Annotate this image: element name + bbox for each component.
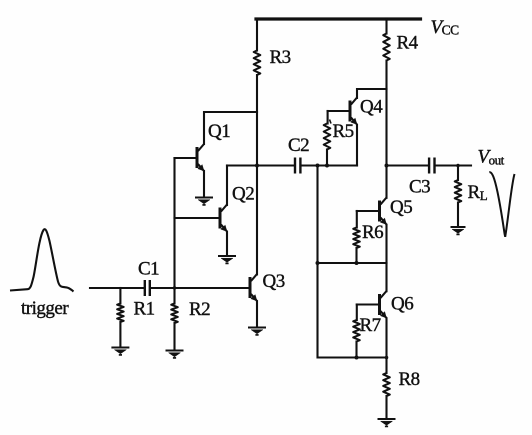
resistor R2 <box>171 304 178 324</box>
resistor R8 <box>383 373 390 396</box>
wire: VCC supply rail <box>256 17 421 20</box>
ground at Q2 emitter <box>218 256 236 263</box>
svg-text:trigger: trigger <box>21 298 69 319</box>
transistor Q1 <box>197 144 204 171</box>
wire: trigger line to C1 <box>90 287 144 289</box>
wire: Q6 base <box>357 303 379 305</box>
svg-text:Q3: Q3 <box>263 271 285 292</box>
svg-text:R8: R8 <box>399 369 420 390</box>
junction: branch wire on node <box>316 164 320 168</box>
junction: mid rung on left branch <box>316 261 320 265</box>
wire: R8 to ground <box>385 396 387 418</box>
wire: Q5 base <box>357 210 379 212</box>
transistor Q5 <box>380 198 387 225</box>
wire: R1 to ground <box>119 322 121 347</box>
resistor RL <box>455 180 462 202</box>
svg-text:R2: R2 <box>189 299 210 320</box>
junction: lower rung at R8 column <box>385 356 389 360</box>
svg-text:Q2: Q2 <box>232 184 254 205</box>
output pulse waveform <box>489 172 514 237</box>
wire: Q6 base down to R7 <box>356 305 358 321</box>
wire: rail to R3 top <box>256 19 258 51</box>
wire: Q1 collector up and right to R3 column <box>204 112 257 144</box>
svg-text:RL: RL <box>468 182 488 203</box>
svg-text:R5: R5 <box>333 121 354 142</box>
junction: R6 bottom <box>355 261 359 265</box>
svg-text:R6: R6 <box>362 222 383 243</box>
ground below R1 <box>111 348 129 355</box>
wire: Q1 base <box>175 157 197 159</box>
resistor R5 <box>324 124 331 150</box>
transistor Q6 <box>380 291 387 318</box>
junction: R5 on node <box>325 164 329 168</box>
wire: rail to R4 <box>385 19 387 34</box>
wire: RL to ground <box>457 203 459 227</box>
wire: R2 to ground <box>173 323 175 350</box>
transistor Q3 <box>250 274 257 301</box>
wire: Q6 emitter down to R8 <box>385 318 387 373</box>
transistor Q4 <box>350 98 357 125</box>
wire: C1 to Q3 base <box>152 287 249 289</box>
wire: Q2 collector node to C2 <box>227 164 294 166</box>
svg-text:Vout: Vout <box>478 146 505 167</box>
wire: Q5 base down to R6 <box>356 211 358 228</box>
svg-text:R3: R3 <box>270 47 291 68</box>
wire: Q2 collector up <box>226 166 228 206</box>
ground below RL <box>451 227 466 234</box>
svg-text:Q4: Q4 <box>360 97 383 118</box>
wire: Q4 emitter down to node <box>356 125 358 166</box>
capacitor C3 <box>429 158 434 174</box>
wire: R3 bottom down to Q3 collector node <box>256 75 258 275</box>
wire: C2 to Q4 emitter node <box>301 164 357 166</box>
wire: C3 to Vout <box>436 164 471 166</box>
svg-text:C1: C1 <box>138 259 159 280</box>
transistor Q2 <box>220 205 227 232</box>
ground at Q1 emitter <box>195 198 213 205</box>
resistor R6 <box>353 228 360 248</box>
wire: R7 bottom to lower rung <box>355 342 357 358</box>
ground at Q3 emitter <box>248 328 266 335</box>
wire: Q5 emitter down to Q6 collector <box>385 225 387 291</box>
svg-text:R7: R7 <box>360 315 381 336</box>
ground below R8 <box>378 419 396 426</box>
capacitor C2 <box>295 158 300 174</box>
wire: R6 bottom to mid rung <box>355 248 357 263</box>
capacitor C1 <box>145 280 150 296</box>
wire: Q4 base down to R5 <box>327 111 329 124</box>
svg-text:VCC: VCC <box>431 17 460 38</box>
wire: node down left branch to R8 top <box>318 166 387 358</box>
junction: R3 column x node wire <box>255 164 259 168</box>
wire: Q2 emitter down <box>226 232 228 255</box>
wire: Q4 base <box>328 110 349 112</box>
svg-text:R1: R1 <box>134 299 155 320</box>
wire: Q1 base down to trigger node <box>173 158 175 288</box>
junction: R2 top <box>173 286 176 289</box>
trigger input pulse waveform <box>10 229 74 291</box>
ground below R2 <box>166 351 184 358</box>
wire: node to R2 <box>173 288 175 304</box>
resistor R7 <box>353 320 360 342</box>
svg-text:C3: C3 <box>409 177 430 198</box>
resistor R1 <box>117 304 124 322</box>
junction: RL top <box>456 164 460 168</box>
junction: R7 on lower rung <box>355 356 359 360</box>
wire: R5 bottom to node <box>326 150 328 166</box>
wire: mid rung to Q5 emitter <box>318 262 387 264</box>
wire: trigger node to R1 <box>119 288 121 304</box>
wire: node down to RL <box>457 166 459 181</box>
wire: Q4 collector to main column <box>357 89 387 98</box>
svg-text:Q5: Q5 <box>390 197 412 218</box>
wire: Q2 base from left wire <box>175 217 220 219</box>
wire: Q1 emitter down <box>203 171 205 197</box>
svg-text:C2: C2 <box>288 135 309 156</box>
wire: R4 bottom down main column <box>385 61 387 198</box>
stray tick mark near R5 <box>330 120 332 124</box>
svg-text:Q6: Q6 <box>391 293 413 314</box>
wire: node to C3 <box>387 164 429 166</box>
junction: main column x output wire <box>385 164 389 168</box>
wire: Q3 emitter down <box>256 301 258 326</box>
resistor R4 <box>383 34 390 61</box>
svg-text:R4: R4 <box>397 33 419 54</box>
svg-text:Q1: Q1 <box>208 121 230 142</box>
resistor R3 <box>254 51 261 75</box>
